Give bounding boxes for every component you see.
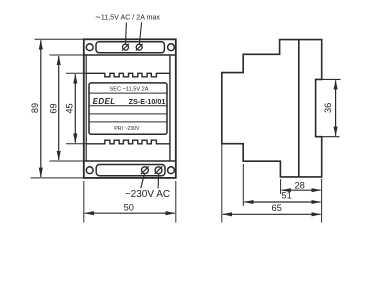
extension line 45 bottom (66, 143, 86, 145)
svg-text:45: 45 (65, 103, 75, 113)
mounting hole top right (168, 44, 175, 51)
top vent comb line (86, 73, 170, 77)
leader line to top screw left (125, 23, 128, 44)
extension line 45 top (66, 72, 86, 74)
svg-text:65: 65 (272, 203, 282, 213)
dimension line 69 (58, 56, 60, 160)
svg-text:89: 89 (30, 103, 40, 113)
dimension line 51 (244, 201, 320, 203)
mounting hole top left (86, 44, 93, 51)
label rule 3 (89, 113, 167, 115)
leader line from bottom screw right (157, 174, 160, 189)
bottom terminal slot (96, 165, 165, 176)
bottom screw right (155, 166, 163, 174)
dimension line 36 (335, 80, 337, 135)
body inner wall left (85, 55, 87, 161)
svg-text:ZS-E-10/01: ZS-E-10/01 (129, 97, 166, 106)
front view module outline (84, 39, 176, 178)
dimension line 50 (85, 212, 175, 214)
extension line right shared (321, 179, 323, 223)
top terminal bar bottom edge (84, 54, 176, 56)
label plate box (89, 83, 167, 134)
mounting hole bottom left (86, 167, 93, 174)
bottom screw left (141, 166, 149, 174)
extension line 50 left (83, 181, 85, 223)
leader line from bottom screw left (141, 174, 145, 189)
extension line 69 bottom (50, 160, 84, 162)
extension line 50 right (175, 181, 177, 223)
svg-text:EDEL: EDEL (93, 97, 116, 106)
label rule 4 (89, 121, 167, 123)
extension line 89 bottom (31, 177, 84, 179)
leader line to top screw right (139, 23, 141, 44)
label rule 1 (89, 92, 167, 94)
bottom terminal bar top edge (84, 160, 176, 162)
dimension line 65 (223, 213, 321, 215)
dimension line 89 (40, 40, 42, 177)
side view front face line (298, 40, 300, 177)
extension line 69 top (50, 54, 84, 56)
extension stub 36 top (316, 78, 341, 80)
bottom vent comb line (86, 140, 170, 144)
extension line 65 left (221, 144, 223, 223)
svg-text:50: 50 (124, 203, 134, 213)
extension line 89 top (35, 38, 84, 40)
svg-text:~230V AC: ~230V AC (125, 189, 170, 200)
extension line 28 left (280, 179, 282, 194)
extension line 51 left (242, 164, 244, 206)
top screw left (122, 44, 129, 51)
svg-text:SEC ~11,5V 2A: SEC ~11,5V 2A (110, 87, 149, 93)
top screw right (136, 44, 143, 51)
svg-text:69: 69 (48, 103, 58, 113)
label rule 2 (89, 105, 167, 107)
mounting hole bottom right (168, 167, 175, 174)
extension stub 36 bottom (316, 136, 340, 138)
top terminal slot (96, 42, 164, 53)
dimension line 28 (282, 189, 321, 191)
svg-text:~11,5V AC / 2A max: ~11,5V AC / 2A max (95, 12, 160, 23)
body inner wall right (169, 55, 171, 161)
dimension line 45 (74, 74, 76, 143)
svg-text:28: 28 (295, 180, 305, 190)
svg-text:36: 36 (323, 103, 333, 113)
svg-text:51: 51 (282, 190, 292, 200)
side view profile (222, 40, 322, 177)
svg-text:PRI ~230V: PRI ~230V (114, 126, 140, 132)
